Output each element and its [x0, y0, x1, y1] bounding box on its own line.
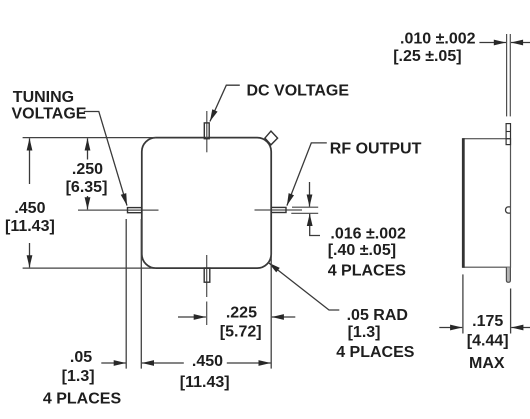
.175 right arrow — [511, 327, 530, 329]
svg-text:[1.3]: [1.3] — [62, 368, 95, 385]
svg-text:.450: .450 — [14, 200, 45, 217]
svg-text:.016 ±.002: .016 ±.002 — [330, 225, 406, 242]
.05 rad leader — [268, 263, 339, 310]
tuning voltage leader — [84, 112, 127, 206]
.010 right arrow — [511, 42, 530, 44]
svg-text:4 PLACES: 4 PLACES — [43, 391, 122, 408]
svg-text:.225: .225 — [226, 305, 257, 322]
left pin tuning voltage — [128, 208, 142, 213]
.250 dimension upper arrow — [87, 138, 89, 159]
side view seal divider 1 — [506, 131, 510, 133]
svg-text:RF OUTPUT: RF OUTPUT — [330, 141, 422, 158]
svg-text:[6.35]: [6.35] — [66, 179, 108, 196]
svg-text:MAX: MAX — [469, 355, 505, 372]
.450 bottom right arrow — [227, 362, 271, 364]
pin 1 diamond marker — [265, 131, 278, 145]
right pin centerline — [255, 209, 303, 211]
side view seal divider 2 — [506, 138, 510, 140]
svg-text:VOLTAGE: VOLTAGE — [12, 106, 87, 123]
top extension line — [23, 137, 156, 139]
.175 left arrow — [439, 327, 462, 329]
right pin RF output — [271, 207, 286, 212]
svg-text:4 PLACES: 4 PLACES — [336, 344, 415, 361]
.016 lower arrow leader — [310, 214, 320, 236]
svg-text:[5.72]: [5.72] — [220, 324, 262, 341]
svg-text:[1.3]: [1.3] — [348, 324, 381, 341]
left .450 dimension upper arrow — [29, 138, 31, 184]
svg-text:[11.43]: [11.43] — [5, 218, 55, 235]
svg-text:[11.43]: [11.43] — [180, 374, 230, 391]
.016 lower extension line — [291, 212, 318, 214]
bottom pin centerline — [206, 255, 208, 297]
side view rf pin end — [506, 207, 511, 213]
svg-text:[.25 ±.05]: [.25 ±.05] — [393, 48, 461, 65]
side view bottom pin stub — [506, 267, 510, 282]
top pin DC voltage — [204, 123, 209, 139]
.175 right extension line — [510, 289, 512, 334]
svg-text:.010 ±.002: .010 ±.002 — [400, 31, 476, 48]
pin tip extension line — [125, 219, 127, 369]
bottom extension line — [23, 267, 156, 269]
svg-text:[.40 ±.05]: [.40 ±.05] — [328, 242, 396, 259]
svg-text:TUNING: TUNING — [13, 89, 74, 106]
package outline front view — [142, 138, 271, 269]
dc voltage leader — [210, 85, 240, 121]
.05 arrow — [101, 362, 126, 364]
svg-text:.175: .175 — [472, 313, 503, 330]
left pin centerline — [78, 209, 159, 211]
side view top pin line right — [509, 34, 511, 116]
svg-text:[4.44]: [4.44] — [467, 333, 509, 350]
svg-text:.450: .450 — [192, 353, 223, 370]
package edge extension line — [140, 219, 142, 369]
svg-text:.250: .250 — [72, 161, 103, 178]
.016 upper extension line — [292, 206, 318, 208]
side view left edge thick — [462, 138, 465, 268]
.225 left arrow — [178, 316, 206, 318]
rf output leader — [287, 143, 327, 206]
.175 left extension line — [462, 274, 464, 333]
svg-text:.05: .05 — [70, 349, 92, 366]
.016 upper arrow — [309, 182, 311, 207]
bottom pin centerline dash — [206, 302, 208, 326]
left .450 dimension lower arrow — [29, 243, 31, 267]
top pin centerline — [206, 111, 208, 152]
svg-text:4 PLACES: 4 PLACES — [328, 263, 407, 280]
.010 left arrow — [479, 42, 506, 44]
svg-text:DC VOLTAGE: DC VOLTAGE — [247, 82, 350, 99]
right extension line — [270, 250, 272, 369]
svg-text:.05 RAD: .05 RAD — [347, 307, 408, 324]
bottom pin — [204, 268, 210, 282]
side view top pin line left — [506, 34, 508, 116]
.250 dimension lower arrow — [87, 196, 89, 209]
.450 bottom left arrow — [142, 362, 184, 364]
side view pin seal box — [506, 124, 510, 145]
side view body — [463, 139, 511, 268]
.225 right arrow — [272, 316, 296, 318]
